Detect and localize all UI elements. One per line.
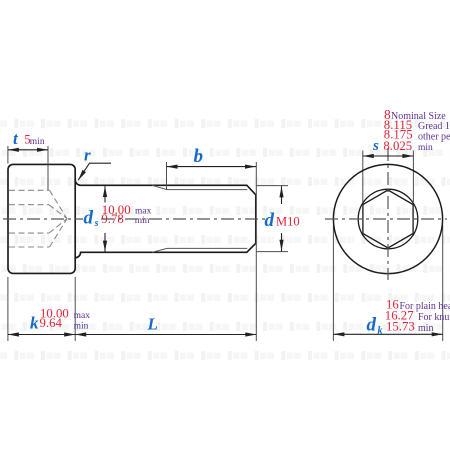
socket circle [358,189,418,249]
svg-text:d: d [265,210,275,231]
dimension t [8,149,48,151]
dimension s [363,155,414,157]
extension lines [8,146,443,341]
svg-text:8.175: 8.175 [384,128,413,142]
dimension d (M10) [281,186,283,204]
thread minor diameter lines [152,185,247,252]
dimension L [75,334,256,336]
centerline left view [3,218,265,220]
dimension k [8,334,75,336]
svg-text:15.73: 15.73 [386,319,415,333]
svg-text:d: d [84,208,94,229]
svg-text:min: min [418,323,434,334]
svg-text:d: d [367,315,377,336]
leader r [78,163,111,180]
svg-text:k: k [378,326,383,337]
shank and thread outline [75,180,256,258]
hidden hex socket lines [9,190,67,247]
svg-text:min: min [135,216,150,226]
centerlines right view [325,148,447,280]
screw head outline [8,164,75,273]
dimension ds [104,186,106,202]
dimension dk [333,333,442,335]
svg-text:s: s [372,138,379,154]
hex socket [363,190,413,248]
svg-text:k: k [30,314,39,333]
svg-text:s: s [94,218,99,229]
svg-text:9.64: 9.64 [40,316,63,330]
svg-text:For knurled: For knurled [418,312,450,323]
svg-text:b: b [194,146,204,167]
svg-text:Gread 12.9: Gread 12.9 [418,121,450,132]
dimension b [167,166,257,168]
svg-text:r: r [84,145,91,164]
svg-text:other performance: other performance [418,131,450,142]
svg-text:min: min [30,137,45,147]
svg-text:max: max [74,311,91,321]
svg-text:L: L [147,315,158,334]
outer circle (head) [333,164,442,273]
svg-text:min: min [74,322,89,332]
svg-text:min: min [418,143,433,153]
svg-text:M10: M10 [276,214,300,228]
